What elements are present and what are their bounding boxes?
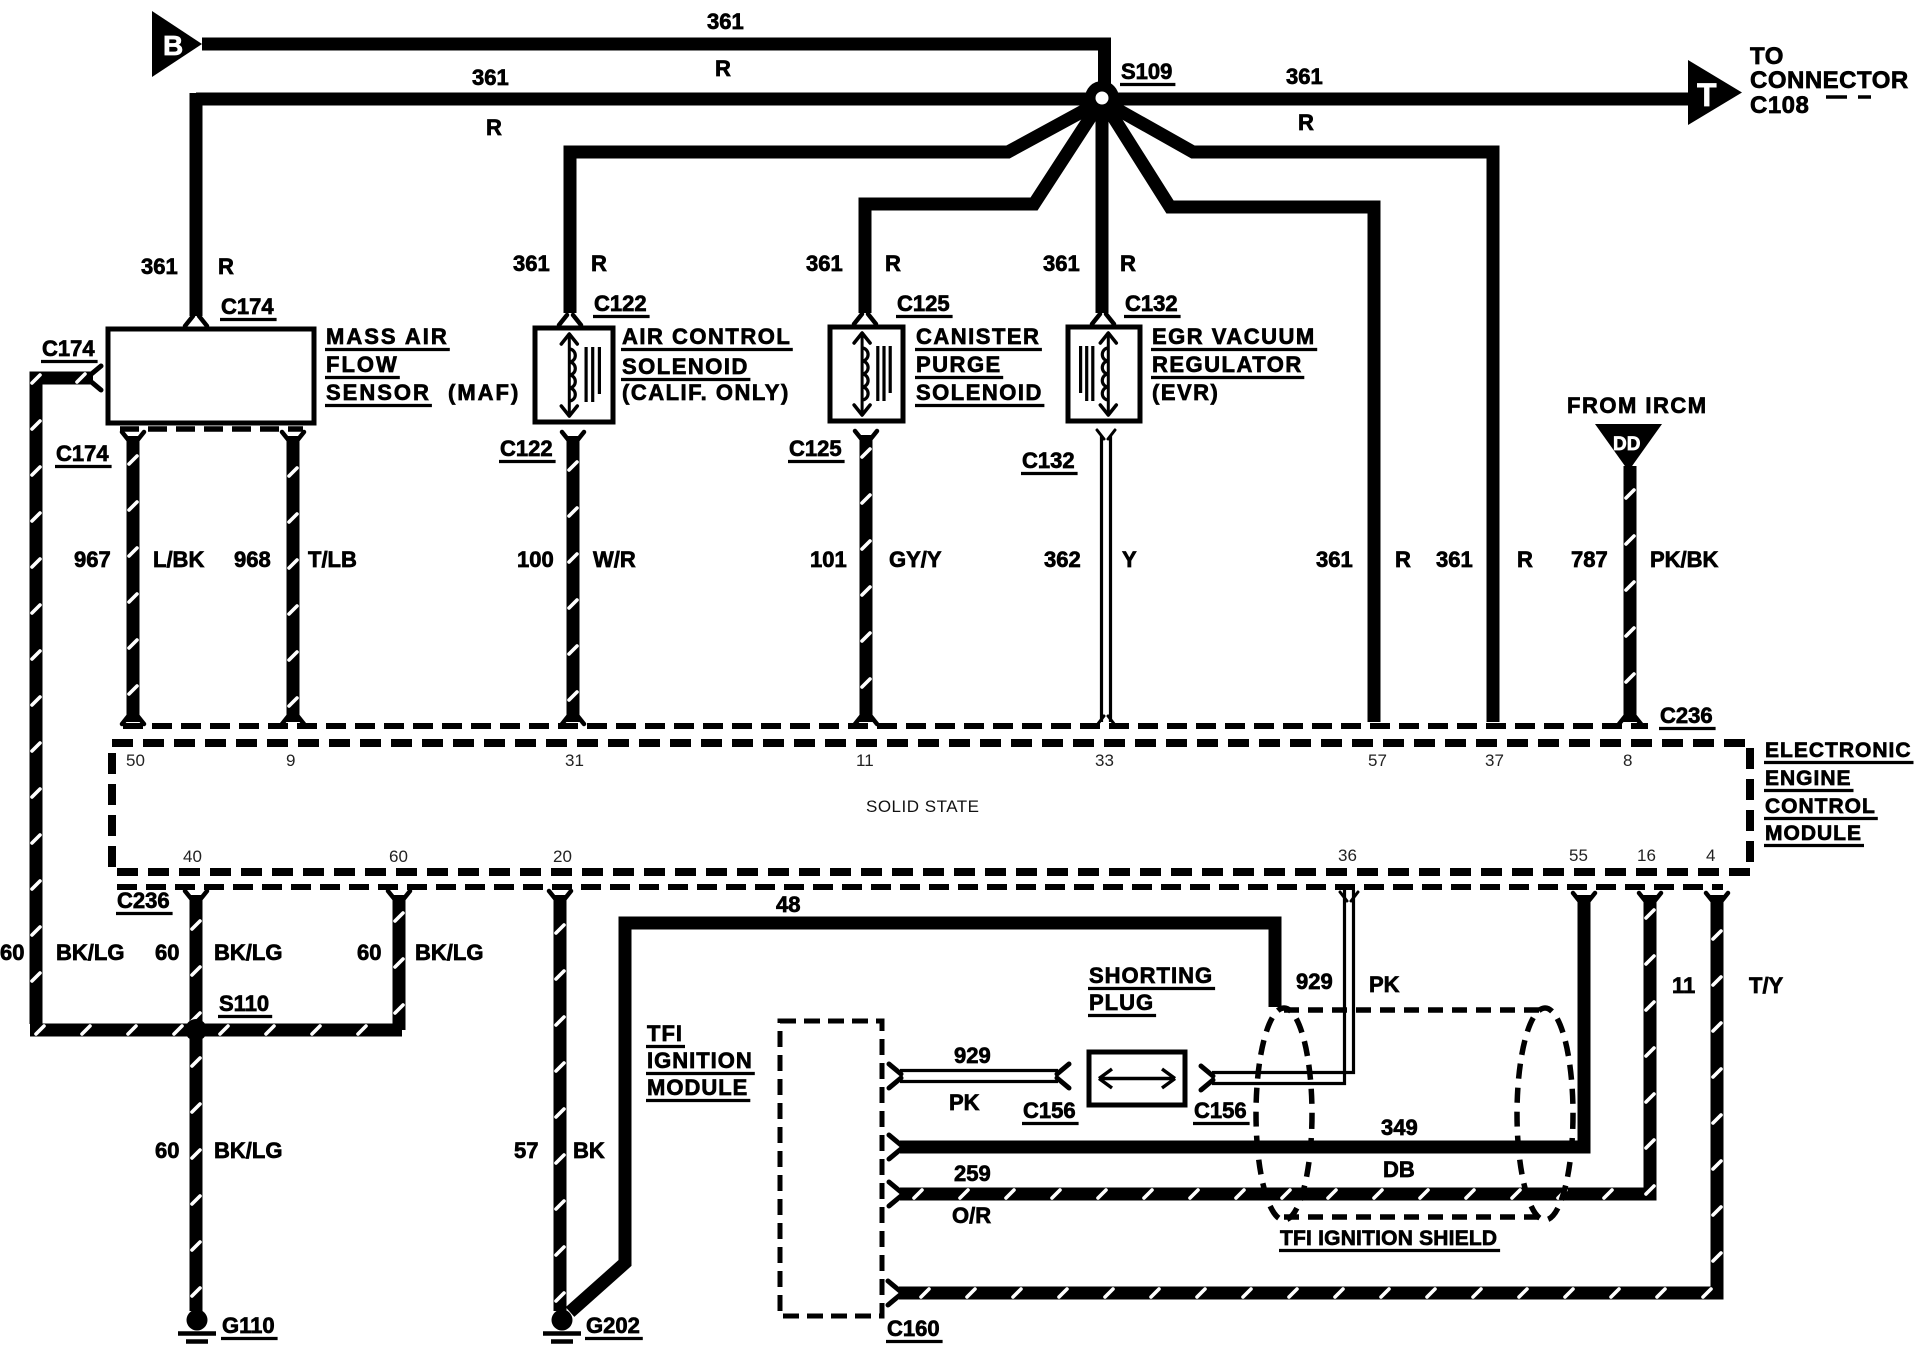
svg-text:C122: C122: [594, 291, 647, 316]
svg-text:R: R: [591, 251, 607, 276]
svg-text:IGNITION: IGNITION: [647, 1048, 753, 1073]
svg-text:SENSOR: SENSOR: [326, 380, 431, 405]
svg-text:C236: C236: [1660, 703, 1713, 728]
svg-text:11: 11: [1672, 973, 1695, 998]
svg-text:57: 57: [514, 1138, 538, 1163]
svg-text:787: 787: [1571, 547, 1608, 572]
svg-text:BK/LG: BK/LG: [415, 940, 483, 965]
connector tip C174 at MAF top: [185, 316, 193, 326]
electronic engine control module dashed box: [112, 743, 1750, 872]
svg-text:361: 361: [472, 65, 509, 90]
svg-text:L/BK: L/BK: [153, 547, 204, 572]
svg-text:C132: C132: [1022, 448, 1075, 473]
svg-text:361: 361: [1286, 64, 1323, 89]
svg-text:(MAF): (MAF): [448, 380, 520, 405]
svg-text:BK: BK: [573, 1138, 605, 1163]
wire 48 shield drain to ground G202: [570, 923, 1275, 1312]
svg-text:31: 31: [565, 751, 584, 770]
splice S109: [1085, 81, 1119, 115]
svg-text:60: 60: [0, 940, 24, 965]
svg-text:929: 929: [954, 1043, 991, 1068]
svg-text:33: 33: [1095, 751, 1114, 770]
svg-text:16: 16: [1637, 846, 1656, 865]
svg-text:361: 361: [1316, 547, 1353, 572]
ground G202: [552, 1310, 573, 1331]
TFI ignition shield top dashed line: [1284, 1007, 1545, 1013]
splice S110: [185, 1019, 207, 1041]
wire 361 R from connector B (top horizontal): [202, 44, 1105, 92]
svg-text:60: 60: [389, 847, 408, 866]
svg-text:361: 361: [1436, 547, 1473, 572]
svg-text:11: 11: [856, 751, 874, 770]
svg-text:TO: TO: [1750, 43, 1784, 70]
svg-text:37: 37: [1485, 751, 1504, 770]
svg-text:Y: Y: [1122, 547, 1137, 572]
svg-text:PURGE: PURGE: [916, 352, 1002, 377]
svg-text:FLOW: FLOW: [326, 352, 399, 377]
canister purge solenoid box C125: [830, 327, 903, 421]
svg-text:R: R: [1120, 251, 1136, 276]
wire 349 DB from TFI module to ECM pin 55: [889, 1135, 901, 1145]
svg-text:361: 361: [707, 9, 744, 34]
svg-text:C156: C156: [1194, 1098, 1247, 1123]
connector dashed line C236 (top): [123, 723, 1648, 729]
svg-text:C160: C160: [887, 1316, 940, 1341]
svg-text:TFI: TFI: [647, 1021, 683, 1046]
svg-text:DD: DD: [1613, 434, 1640, 455]
svg-text:R: R: [218, 254, 234, 279]
connector dashed line C174 below MAF: [120, 426, 303, 432]
connector C156 right tip: [1201, 1066, 1213, 1076]
connector C156 left tip: [1057, 1064, 1069, 1074]
svg-text:101: 101: [810, 547, 847, 572]
svg-text:C174: C174: [221, 294, 274, 319]
svg-text:PK: PK: [949, 1090, 980, 1115]
wire 259 O/R from TFI module to ECM pin 16: [889, 1182, 901, 1192]
wire 60 BK/LG horizontal through splice S110: [30, 1024, 402, 1037]
wire 361 R drop to MAF sensor: [190, 93, 203, 316]
wire 60 BK/LG from ECM pin 40 to splice S110: [185, 891, 193, 901]
svg-text:B: B: [163, 30, 183, 61]
svg-text:(CALIF. ONLY): (CALIF. ONLY): [622, 380, 790, 405]
svg-text:361: 361: [513, 251, 550, 276]
svg-text:PLUG: PLUG: [1089, 990, 1154, 1015]
svg-text:60: 60: [155, 940, 179, 965]
svg-text:R: R: [885, 251, 901, 276]
svg-text:C174: C174: [56, 441, 109, 466]
wire 101 GY/Y from C125: [855, 431, 863, 441]
svg-text:362: 362: [1044, 547, 1081, 572]
svg-text:TFI IGNITION SHIELD: TFI IGNITION SHIELD: [1280, 1227, 1497, 1250]
mass air flow sensor box: [108, 329, 314, 423]
svg-text:C174: C174: [42, 336, 95, 361]
svg-text:R: R: [486, 115, 502, 140]
svg-text:20: 20: [553, 847, 572, 866]
svg-text:60: 60: [357, 940, 381, 965]
wire 361 R to EGR regulator: [1096, 98, 1109, 313]
splice S109 fan wire to air control solenoid: [570, 103, 1098, 313]
wire 967 L/BK from MAF: [122, 432, 130, 442]
svg-text:C125: C125: [897, 291, 950, 316]
connector dashed line C236 (bottom): [117, 884, 1723, 890]
svg-text:40: 40: [183, 847, 202, 866]
svg-text:259: 259: [954, 1161, 991, 1186]
svg-text:SOLENOID: SOLENOID: [622, 354, 749, 379]
svg-text:PK/BK: PK/BK: [1650, 547, 1719, 572]
svg-text:S109: S109: [1121, 59, 1172, 84]
svg-text:GY/Y: GY/Y: [889, 547, 942, 572]
svg-text:50: 50: [126, 751, 145, 770]
svg-text:AIR CONTROL: AIR CONTROL: [622, 324, 791, 349]
connector arrow T to C108: [1688, 60, 1742, 125]
svg-text:C122: C122: [500, 436, 553, 461]
connector C174 branch at left: [36, 378, 93, 1024]
svg-text:968: 968: [234, 547, 271, 572]
svg-text:ELECTRONIC: ELECTRONIC: [1765, 739, 1912, 762]
svg-text:SHORTING: SHORTING: [1089, 963, 1213, 988]
svg-text:60: 60: [155, 1138, 179, 1163]
svg-text:T: T: [1697, 77, 1717, 113]
svg-text:O/R: O/R: [952, 1203, 991, 1228]
svg-text:100: 100: [517, 547, 554, 572]
svg-text:MASS AIR: MASS AIR: [326, 324, 449, 349]
svg-text:W/R: W/R: [593, 547, 636, 572]
splice S109 fan wire to ECM pin 57: [1105, 104, 1374, 722]
svg-text:R: R: [1395, 547, 1411, 572]
svg-text:R: R: [715, 56, 731, 81]
air control solenoid box C122: [535, 328, 613, 422]
svg-text:REGULATOR: REGULATOR: [1152, 352, 1303, 377]
svg-text:CANISTER: CANISTER: [916, 324, 1040, 349]
svg-text:T/LB: T/LB: [308, 547, 357, 572]
svg-text:PK: PK: [1369, 972, 1400, 997]
ground G110: [187, 1310, 208, 1331]
wire 57 BK from ECM pin 20 to ground G202: [549, 891, 557, 901]
svg-text:CONNECTOR: CONNECTOR: [1750, 67, 1909, 94]
svg-text:361: 361: [806, 251, 843, 276]
svg-text:9: 9: [286, 751, 295, 770]
svg-text:361: 361: [141, 254, 178, 279]
TFI ignition shield left ellipse: [1256, 1008, 1312, 1220]
svg-text:BK/LG: BK/LG: [56, 940, 124, 965]
svg-text:S110: S110: [219, 991, 269, 1016]
svg-text:C132: C132: [1125, 291, 1178, 316]
svg-text:4: 4: [1706, 846, 1715, 865]
wire 60 BK/LG up to ECM pin 60: [388, 891, 396, 901]
wire 929 PK from TFI module to C156 (thin double): [889, 1064, 901, 1074]
svg-text:SOLENOID: SOLENOID: [916, 380, 1043, 405]
wire 60 BK/LG from S110 to ground G110: [190, 1036, 203, 1311]
wire 361 R main horizontal to connector C108: [196, 93, 1688, 106]
svg-text:48: 48: [776, 892, 800, 917]
svg-text:T/Y: T/Y: [1749, 973, 1784, 998]
svg-text:MODULE: MODULE: [1765, 822, 1862, 845]
svg-text:BK/LG: BK/LG: [214, 940, 282, 965]
svg-text:ENGINE: ENGINE: [1765, 767, 1852, 790]
shorting plug box: [1089, 1052, 1185, 1105]
wire 787 PK/BK from IRCM to ECM pin 8: [1624, 466, 1637, 722]
TFI ignition module dashed box: [780, 1021, 882, 1316]
svg-text:36: 36: [1338, 846, 1357, 865]
svg-text:R: R: [1517, 547, 1533, 572]
svg-text:C236: C236: [117, 888, 170, 913]
splice S109 fan wire to canister purge solenoid: [865, 104, 1099, 313]
svg-text:361: 361: [1043, 251, 1080, 276]
EGR vacuum regulator box C132: [1068, 327, 1140, 421]
TFI ignition shield bottom dashed line: [1284, 1214, 1545, 1220]
connector arrow DD from IRCM: [1595, 424, 1662, 471]
svg-text:C156: C156: [1023, 1098, 1076, 1123]
svg-text:967: 967: [74, 547, 111, 572]
svg-text:CONTROL: CONTROL: [1765, 795, 1876, 818]
svg-text:929: 929: [1296, 969, 1333, 994]
svg-text:EGR VACUUM: EGR VACUUM: [1152, 324, 1316, 349]
svg-text:SOLID STATE: SOLID STATE: [866, 797, 980, 816]
wire 929 PK from C156 up to ECM pin 36 (thin double): [1212, 890, 1354, 1073]
svg-text:G202: G202: [586, 1313, 640, 1338]
svg-text:(EVR): (EVR): [1152, 380, 1219, 405]
svg-text:55: 55: [1569, 846, 1588, 865]
svg-text:R: R: [1298, 110, 1314, 135]
wire 100 W/R from C122: [562, 432, 570, 442]
connector arrow B: [152, 11, 202, 77]
svg-text:C125: C125: [789, 436, 842, 461]
svg-text:8: 8: [1623, 751, 1632, 770]
svg-text:349: 349: [1381, 1115, 1418, 1140]
TFI ignition shield right ellipse: [1517, 1008, 1573, 1220]
svg-text:57: 57: [1368, 751, 1387, 770]
svg-text:FROM IRCM: FROM IRCM: [1567, 393, 1708, 418]
wire 968 T/LB from MAF: [282, 432, 290, 442]
wire 362 Y from C132 (thin double): [1097, 430, 1104, 439]
splice S109 fan wire to ECM pin 37: [1106, 103, 1493, 722]
svg-text:BK/LG: BK/LG: [214, 1138, 282, 1163]
svg-text:C108: C108: [1750, 92, 1809, 119]
svg-text:MODULE: MODULE: [647, 1075, 748, 1100]
svg-text:DB: DB: [1383, 1157, 1415, 1182]
svg-text:G110: G110: [222, 1313, 275, 1338]
wire 11 T/Y from TFI module to ECM pin 4: [888, 1281, 900, 1291]
